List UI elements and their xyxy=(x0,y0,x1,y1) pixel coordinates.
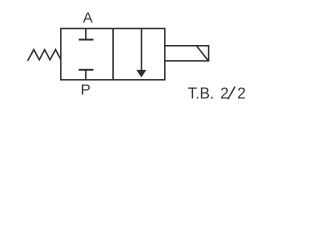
svg-text:2: 2 xyxy=(237,86,246,103)
label 2/2 slash xyxy=(228,87,235,100)
spring return (zigzag) xyxy=(28,50,61,61)
valve cell divider xyxy=(112,29,114,80)
svg-text:2: 2 xyxy=(220,86,229,103)
port A stub wire xyxy=(85,29,87,40)
port P stub wire xyxy=(85,70,87,80)
valve body V1 (2/2-way valve, two cells) xyxy=(61,29,165,80)
svg-text:P: P xyxy=(81,82,91,99)
svg-text:T.B.: T.B. xyxy=(188,86,214,103)
flow path arrow (right cell) xyxy=(136,29,146,78)
port A blocked T-bar xyxy=(79,39,94,41)
svg-text:A: A xyxy=(83,11,93,27)
plunger actuator (rectangle with diagonal) xyxy=(165,46,209,61)
port P blocked T-bar xyxy=(79,69,94,71)
